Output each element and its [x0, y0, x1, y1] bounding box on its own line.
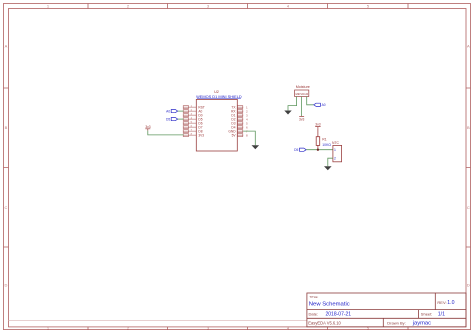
svg-text:REV:: REV: [437, 300, 446, 305]
left pin names [198, 105, 204, 137]
wire A0 to U2 [178, 110, 184, 112]
svg-text:GND VCC A0: GND VCC A0 [295, 93, 309, 96]
svg-text:3v3: 3v3 [145, 125, 150, 129]
power 3v3 (left) [145, 125, 151, 131]
wire Moisture pin2 to 3v3 [301, 97, 303, 117]
right pin names [228, 105, 236, 137]
svg-text:jaymac: jaymac [412, 320, 431, 326]
power 3v3 (under Moisture) [299, 116, 304, 121]
svg-text:A: A [467, 44, 470, 49]
svg-text:1.0: 1.0 [447, 300, 454, 306]
svg-text:D5: D5 [294, 148, 298, 152]
wire Moisture pin3 to A0 flag [307, 97, 314, 105]
ground (NTC pin2) [324, 166, 332, 170]
right pin headers with pin numbers [237, 106, 243, 137]
wire 3v3 to U2 3V3 pin [148, 131, 184, 135]
svg-text:1/1: 1/1 [438, 312, 445, 318]
svg-text:R1: R1 [322, 138, 326, 142]
svg-text:A0: A0 [166, 109, 170, 113]
svg-text:NTC: NTC [332, 141, 340, 145]
wire D5 flag to NTC pin1 [306, 149, 333, 151]
svg-text:C: C [467, 205, 470, 210]
ground (U2 GND) [252, 145, 260, 149]
svg-text:WEMOS D1 MINI SHIELD: WEMOS D1 MINI SHIELD [196, 94, 242, 99]
right ticks [466, 88, 471, 247]
wire Moisture pin1 to ground [288, 97, 297, 111]
svg-text:D: D [5, 283, 8, 288]
bottom ticks [88, 327, 408, 330]
wire D5 to U2 [178, 118, 184, 120]
svg-text:Moisture: Moisture [296, 85, 310, 89]
svg-text:2018-07-21: 2018-07-21 [326, 312, 352, 318]
net flag D5 (left) [166, 117, 178, 121]
junction (R1 / D5 / NTC) [317, 149, 319, 151]
left ticks [4, 88, 9, 247]
svg-text:D5: D5 [166, 117, 170, 121]
svg-text:3V3: 3V3 [198, 133, 204, 137]
svg-text:3v3: 3v3 [315, 123, 320, 127]
svg-text:EasyEDA V5.6.10: EasyEDA V5.6.10 [308, 320, 341, 325]
net flag A0 (left) [166, 109, 178, 113]
svg-text:TITLE:: TITLE: [309, 295, 318, 299]
svg-text:New Schematic: New Schematic [309, 301, 350, 307]
svg-text:3v3: 3v3 [299, 117, 304, 121]
svg-text:Sheet:: Sheet: [421, 311, 433, 316]
svg-text:C: C [5, 205, 8, 210]
top ticks [88, 4, 408, 9]
svg-text:B: B [467, 125, 470, 130]
svg-text:A0: A0 [322, 103, 326, 107]
svg-text:1: 1 [334, 148, 336, 152]
IC U2 WEMOS D1 MINI SHIELD [183, 90, 248, 151]
wire U2 GND pin to ground [243, 131, 255, 145]
module Moisture [295, 85, 310, 97]
canvas edge faint line [9, 320, 307, 322]
svg-text:Date:: Date: [309, 311, 319, 316]
power 3v3 (above R1) [315, 123, 321, 129]
svg-text:Drawn By:: Drawn By: [387, 320, 405, 325]
svg-text:B: B [5, 125, 8, 130]
svg-text:2: 2 [334, 157, 336, 161]
thermistor NTC [332, 141, 342, 162]
svg-text:10KΩ: 10KΩ [322, 143, 331, 147]
ground (Moisture pin1) [284, 111, 291, 115]
wire NTC pin2 to ground [328, 158, 333, 166]
resistor R1 10KΩ [316, 129, 331, 150]
net flag A0 (right) [314, 103, 326, 107]
title block (decorative) [307, 293, 466, 327]
net flag D5 (right) [294, 148, 306, 152]
svg-text:D: D [467, 283, 470, 288]
left pin headers with pin numbers [183, 106, 196, 137]
svg-text:A: A [5, 44, 8, 49]
